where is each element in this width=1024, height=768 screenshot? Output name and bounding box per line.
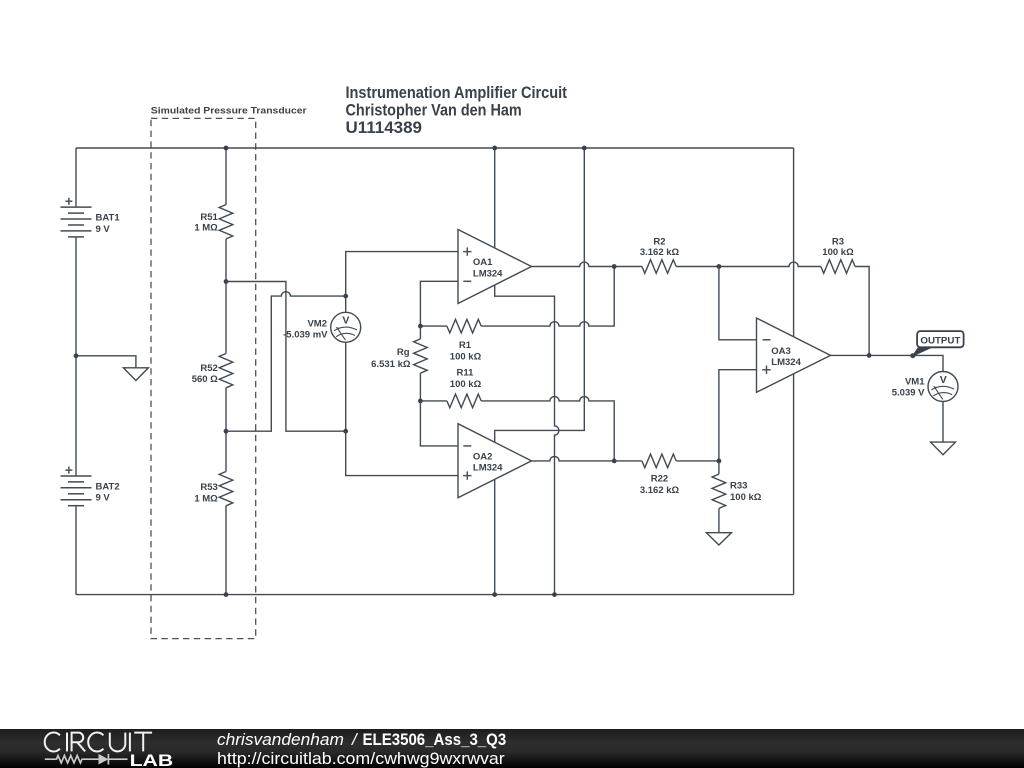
resistor R22 bbox=[614, 454, 719, 468]
CircuitLab logo wordmark CIRCUIT bbox=[45, 733, 152, 752]
OA2 name label bbox=[473, 451, 503, 473]
Rg value label bbox=[371, 347, 411, 370]
resistor R1 bbox=[420, 267, 614, 333]
wire bottom rail bbox=[76, 594, 794, 596]
svg-text:100 kΩ: 100 kΩ bbox=[450, 379, 482, 390]
svg-text:OA2: OA2 bbox=[473, 451, 493, 462]
R2 value label bbox=[640, 237, 680, 259]
title text block bbox=[346, 83, 568, 137]
svg-text:3.162 kΩ: 3.162 kΩ bbox=[640, 247, 680, 258]
svg-text:BAT2: BAT2 bbox=[96, 481, 120, 492]
node VM2 top bbox=[343, 294, 348, 299]
resistor R51 bbox=[219, 148, 233, 282]
svg-text:100 kΩ: 100 kΩ bbox=[730, 492, 762, 503]
svg-text:http://circuitlab.com/cwhwg9wx: http://circuitlab.com/cwhwg9wxrwvar bbox=[217, 749, 505, 768]
svg-text:R2: R2 bbox=[653, 237, 665, 248]
svg-text:VM1: VM1 bbox=[905, 376, 925, 387]
VM1 value label bbox=[892, 376, 925, 398]
svg-text:OA1: OA1 bbox=[473, 257, 493, 268]
wire OA1 inverting input feed bbox=[420, 281, 458, 326]
svg-text:ELE3506_Ass_3_Q3: ELE3506_Ass_3_Q3 bbox=[363, 730, 507, 749]
wire OA3 inverting input feed bbox=[719, 267, 757, 340]
wire left rail lower bbox=[75, 506, 77, 595]
svg-text:Rg: Rg bbox=[397, 347, 410, 358]
node bottom rail OA2 power bbox=[492, 592, 497, 597]
wire left rail middle bbox=[75, 237, 77, 476]
svg-text:chrisvandenham: chrisvandenham bbox=[217, 730, 344, 749]
svg-text:560 Ω: 560 Ω bbox=[192, 374, 218, 385]
svg-text:-5.039 mV: -5.039 mV bbox=[283, 330, 328, 341]
resistor R11 bbox=[420, 394, 614, 461]
R1 value label bbox=[450, 340, 482, 362]
svg-text:5.039 V: 5.039 V bbox=[892, 388, 925, 399]
ground symbol below VM1 bbox=[931, 442, 956, 455]
op-amp OA1 bbox=[458, 230, 532, 304]
wire right power column lower bbox=[793, 374, 795, 595]
svg-text:R3: R3 bbox=[832, 237, 844, 248]
node R51 R52 junction bbox=[224, 279, 229, 284]
R51 value label bbox=[194, 212, 218, 233]
BAT2 value label bbox=[96, 481, 120, 503]
wire OA1 V+ power from top rail bbox=[494, 148, 496, 248]
node OUTPUT tap bbox=[910, 353, 915, 358]
wire R2 to R3 with hop bbox=[719, 262, 821, 266]
node battery mid junction bbox=[74, 353, 79, 358]
svg-text:OUTPUT: OUTPUT bbox=[920, 335, 960, 346]
wire bridge from R51-R52 junction to VM2 bottom node bbox=[226, 282, 346, 432]
op-amp OA2 bbox=[458, 424, 532, 498]
svg-text:R53: R53 bbox=[200, 482, 217, 493]
wire battery ground tap bbox=[76, 356, 136, 368]
wire OA1 output with hop bbox=[532, 262, 615, 266]
svg-text:R22: R22 bbox=[651, 474, 668, 485]
svg-text:LM324: LM324 bbox=[771, 357, 801, 368]
svg-text:V: V bbox=[342, 314, 349, 326]
wire top rail bbox=[76, 147, 794, 149]
resistor R3 bbox=[821, 260, 869, 356]
svg-text:R52: R52 bbox=[200, 363, 217, 374]
svg-text:6.531 kΩ: 6.531 kΩ bbox=[371, 359, 411, 370]
wire OA1 V- power route to bottom rail bbox=[495, 285, 559, 594]
resistor R2 bbox=[614, 260, 719, 274]
svg-text:1 MΩ: 1 MΩ bbox=[194, 493, 218, 504]
svg-text:OA3: OA3 bbox=[771, 346, 791, 357]
wire left rail upper bbox=[75, 148, 77, 207]
svg-text:100 kΩ: 100 kΩ bbox=[822, 247, 854, 258]
node R1 left bbox=[418, 324, 423, 329]
svg-text:VM2: VM2 bbox=[307, 318, 327, 329]
resistor R33 bbox=[712, 461, 726, 533]
wire OA2 V+ power route from top rail with hop bbox=[495, 148, 585, 442]
svg-text:9 V: 9 V bbox=[96, 493, 111, 504]
node R11 left bbox=[418, 399, 423, 404]
op-amp OA3 bbox=[757, 318, 831, 392]
CircuitLab logo resistor-diode line bbox=[45, 754, 128, 765]
resistor R53 bbox=[219, 431, 233, 594]
R53 value label bbox=[194, 482, 218, 505]
svg-text:Simulated Pressure Transducer: Simulated Pressure Transducer bbox=[151, 106, 307, 117]
node R3 to OA3 output bbox=[867, 353, 872, 358]
node top rail OA2 power bbox=[582, 146, 587, 151]
svg-text:V: V bbox=[940, 374, 947, 386]
svg-text:R1: R1 bbox=[459, 340, 472, 351]
ground symbol near batteries bbox=[123, 368, 148, 381]
node OA2 output feedback bbox=[612, 459, 617, 464]
BAT1 value label bbox=[96, 213, 121, 235]
footer bar bbox=[0, 729, 1024, 768]
wire right power column upper bbox=[793, 148, 795, 337]
node bottom rail OA1 power bbox=[552, 592, 557, 597]
OA1 name label bbox=[473, 257, 503, 280]
wire OA1 noninverting input feed bbox=[346, 252, 458, 297]
wire bridge from R52-R53 junction to VM2 top node with hop bbox=[226, 292, 346, 432]
battery BAT2 bbox=[61, 467, 92, 506]
svg-text:Christopher Van den Ham: Christopher Van den Ham bbox=[346, 100, 522, 119]
OUTPUT flag bbox=[911, 331, 964, 357]
wire OA3 output to VM1 bbox=[831, 355, 944, 372]
node R22 R33 junction bbox=[717, 459, 722, 464]
footer username line bbox=[217, 730, 506, 749]
battery BAT1 bbox=[61, 198, 92, 237]
svg-text:1 MΩ: 1 MΩ bbox=[194, 222, 218, 233]
svg-text:Instrumenation Amplifier Circu: Instrumenation Amplifier Circuit bbox=[346, 83, 568, 102]
R52 value label bbox=[192, 363, 218, 385]
svg-text:100 kΩ: 100 kΩ bbox=[450, 352, 482, 363]
wire OA3 noninverting input feed bbox=[719, 370, 757, 461]
wire OA2 output with hop bbox=[532, 457, 615, 461]
wire OA2 inverting input feed bbox=[420, 401, 458, 446]
R11 value label bbox=[450, 367, 482, 390]
R3 value label bbox=[822, 237, 854, 259]
node OA1 output feedback bbox=[612, 264, 617, 269]
ground symbol below R33 bbox=[706, 533, 731, 545]
svg-text:R33: R33 bbox=[730, 481, 747, 492]
VM2 value label bbox=[283, 318, 328, 340]
node bottom rail R53 bbox=[224, 592, 229, 597]
resistor Rg bbox=[414, 326, 428, 401]
OA3 name label bbox=[771, 346, 801, 368]
svg-text:U1114389: U1114389 bbox=[346, 118, 423, 137]
svg-text:R51: R51 bbox=[200, 212, 218, 223]
svg-text:LM324: LM324 bbox=[473, 463, 503, 474]
R22 value label bbox=[640, 474, 680, 496]
svg-text:R11: R11 bbox=[457, 367, 475, 378]
voltmeter VM1 bbox=[928, 372, 958, 443]
wire OA2 V- power to bottom rail bbox=[494, 479, 496, 594]
dashed annotation box: Simulated Pressure Transducer bbox=[151, 118, 256, 638]
svg-text:LM324: LM324 bbox=[473, 268, 503, 279]
node R52 R53 junction bbox=[224, 429, 229, 434]
svg-text:LAB: LAB bbox=[130, 752, 174, 768]
svg-text:3.162 kΩ: 3.162 kΩ bbox=[640, 485, 680, 496]
node VM2 bottom bbox=[343, 429, 348, 434]
resistor R52 bbox=[219, 282, 233, 432]
voltmeter VM2 bbox=[331, 296, 458, 476]
svg-text:9 V: 9 V bbox=[96, 224, 111, 235]
node top rail R51 bbox=[224, 146, 229, 151]
svg-text:BAT1: BAT1 bbox=[96, 213, 121, 224]
node R2 right bbox=[717, 264, 722, 269]
R33 value label bbox=[730, 481, 762, 503]
node top rail OA1 power bbox=[492, 146, 497, 151]
